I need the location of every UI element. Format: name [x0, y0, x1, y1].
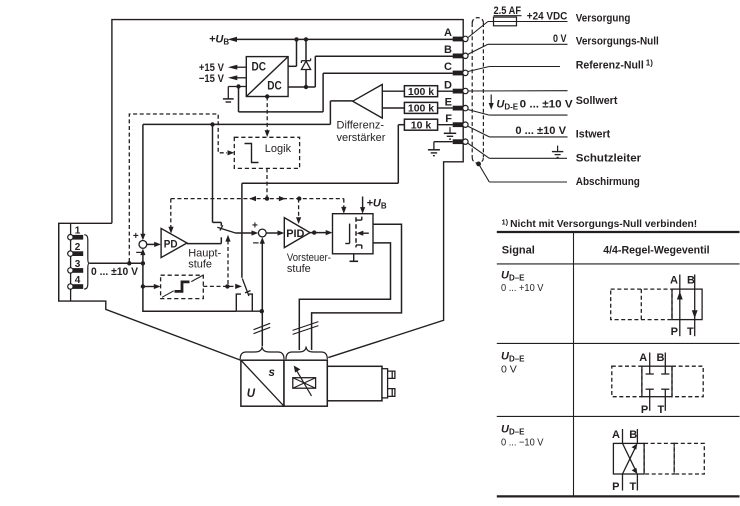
connection labels column	[576, 12, 659, 188]
pin 1	[68, 226, 84, 240]
connector X1 body	[59, 223, 71, 301]
junction node ref ground	[236, 84, 240, 88]
table header rule	[497, 263, 740, 265]
table top rule	[497, 231, 740, 233]
junction node PID output	[312, 230, 316, 234]
svg-text:Differenz-: Differenz-	[337, 119, 385, 131]
svg-text:E: E	[445, 96, 452, 108]
op-amp difference amplifier	[353, 84, 383, 118]
brace wire entry solenoid	[286, 346, 327, 359]
svg-text:Istwert: Istwert	[576, 129, 611, 141]
wire Versorgungs-Null	[468, 44, 568, 54]
svg-text:UD–E: UD–E	[501, 270, 525, 283]
svg-text:1: 1	[75, 226, 81, 237]
wire PD output to switch contact	[187, 237, 221, 243]
svg-text:stufe: stufe	[287, 263, 311, 275]
svg-text:UD-E0 ... ±10 V: UD-E0 ... ±10 V	[496, 98, 573, 111]
junction node diode/0V	[304, 85, 308, 89]
row3 valve symbol crossed position	[613, 429, 704, 491]
svg-text:B: B	[687, 274, 695, 286]
pin 3	[68, 259, 84, 273]
wire sensor lead down	[261, 311, 263, 346]
svg-text:C: C	[444, 61, 452, 73]
wire Versorgung with fuse	[468, 22, 568, 38]
svg-text:P: P	[641, 404, 648, 416]
label Differenzverstaerker	[337, 119, 386, 144]
junction node DC/DC to logic	[265, 94, 269, 98]
dashed control arrow to output stage	[341, 199, 346, 214]
resistor R1 100k	[382, 86, 453, 98]
op-amp PD main stage	[161, 228, 187, 257]
wire output stage to solenoid (inner)	[299, 243, 390, 350]
dashed command-sense line to Logik	[129, 114, 234, 262]
svg-text:+: +	[252, 221, 258, 232]
svg-text:0 ... ±10 V: 0 ... ±10 V	[515, 125, 566, 137]
−15V output arrow	[199, 73, 246, 85]
row3 label UD-E 0...-10V	[501, 424, 544, 449]
svg-text:B: B	[444, 44, 452, 56]
+UB arrow into output stage	[360, 197, 387, 214]
fuse 2.5AF	[494, 5, 522, 26]
svg-text:100 k: 100 k	[408, 86, 434, 98]
svg-text:stufe: stufe	[188, 258, 212, 270]
wire Abschirmung	[479, 164, 567, 182]
svg-text:0 V: 0 V	[553, 33, 567, 45]
brace joining pins	[84, 235, 89, 289]
row1 flow arrows	[677, 291, 698, 318]
wire into limiter	[143, 284, 161, 289]
svg-text:UD–E: UD–E	[501, 424, 525, 437]
earth symbol at Schutzleiter	[552, 146, 563, 158]
junction node diff output branch	[210, 122, 214, 126]
junction node dashed control	[225, 284, 229, 288]
junction node solenoid feed	[260, 309, 264, 313]
valve body	[327, 366, 382, 401]
dashed control arrow to PID	[296, 199, 301, 224]
svg-text:0 ... −10 V: 0 ... −10 V	[501, 437, 544, 449]
svg-text:DC: DC	[267, 81, 282, 93]
svg-text:10 k: 10 k	[411, 120, 432, 132]
terminal F	[445, 113, 468, 128]
svg-text:Logik: Logik	[265, 143, 292, 155]
wire Sollwert D	[468, 90, 567, 92]
wire Sollwert E	[468, 110, 568, 116]
svg-text:T: T	[658, 404, 665, 416]
wire istwert feedback from R3	[242, 125, 405, 278]
row2 label UD-E 0V	[501, 351, 525, 376]
svg-text:verstärker: verstärker	[337, 132, 386, 144]
junction node S1 lower	[141, 261, 145, 265]
chassis earth for PE terminal	[428, 142, 453, 156]
ground symbol below F	[444, 127, 456, 139]
row divider 1	[497, 342, 740, 344]
limiter ramp block (dashed)	[161, 275, 204, 298]
svg-text:UD–E: UD–E	[501, 351, 525, 364]
svg-text:PID: PID	[286, 228, 304, 240]
svg-text:4: 4	[75, 275, 81, 286]
junction node +UB/DCDC	[294, 37, 298, 41]
cable break on sensor lead	[254, 323, 271, 333]
svg-text:F: F	[445, 113, 452, 125]
row2 valve symbol mid position	[612, 353, 703, 411]
ground below output stage	[350, 254, 359, 261]
svg-text:+UB: +UB	[367, 198, 387, 211]
svg-text:P: P	[612, 481, 619, 493]
dc-dc converter U2	[246, 57, 288, 97]
pin 4	[68, 275, 84, 289]
wire reference-null to terminal C	[239, 73, 453, 112]
svg-text:2.5 AF: 2.5 AF	[494, 5, 522, 17]
diode V1 (suppressor)	[301, 39, 310, 87]
row1 port letters	[670, 274, 695, 338]
dashed limiter output	[203, 285, 227, 287]
svg-text:+: +	[133, 231, 139, 242]
switch S-B contacts	[236, 294, 261, 311]
svg-text:A: A	[670, 274, 678, 286]
output stage box	[333, 214, 374, 254]
svg-text:U: U	[247, 388, 256, 400]
wire diff-direct to switch contact	[213, 124, 222, 225]
svg-text:Versorgungs-Null: Versorgungs-Null	[576, 36, 659, 48]
svg-text:D: D	[444, 79, 452, 91]
junction node shield tap	[476, 162, 481, 167]
svg-text:PD: PD	[164, 238, 178, 250]
svg-text:A: A	[612, 429, 620, 441]
svg-text:3: 3	[75, 259, 81, 270]
wire command input	[89, 262, 143, 264]
junction node limiter tap	[141, 284, 145, 288]
dashed switch control arrow up	[225, 235, 230, 284]
wire Referenz-Null	[468, 67, 560, 72]
junction node +UB/diode	[304, 37, 308, 41]
svg-text:DC: DC	[252, 62, 267, 74]
wire diff-amp output to summing node S1	[143, 101, 353, 237]
arrow of MOSFET	[357, 231, 364, 236]
terminal E	[445, 96, 468, 111]
svg-text:−15 V: −15 V	[199, 73, 225, 85]
svg-text:Referenz-Null1): Referenz-Null1)	[576, 59, 653, 72]
wire Istwert	[468, 126, 568, 137]
changeover switch S-A	[217, 225, 235, 233]
cable break on solenoid pair	[293, 322, 319, 335]
cable shield (dashed)	[472, 18, 483, 164]
label Hauptstufe	[188, 247, 221, 270]
terminal A	[444, 27, 468, 41]
pin 2	[68, 242, 84, 256]
op-amp PID pilot stage	[284, 218, 310, 248]
wire output stage to solenoid (outer)	[312, 224, 402, 350]
changeover switch S-B	[242, 279, 250, 297]
svg-text:Versorgung: Versorgung	[576, 12, 631, 24]
wire +UB supply rail	[237, 39, 453, 66]
svg-text:2: 2	[75, 242, 81, 253]
svg-text:+24 VDC: +24 VDC	[527, 10, 568, 22]
label UD-E 0 ... +-10 V with arrow	[489, 95, 574, 112]
svg-text:A: A	[639, 352, 647, 364]
table column divider	[573, 232, 575, 496]
summing node S1	[133, 231, 147, 259]
wire S1 to PD	[147, 242, 161, 247]
row1 label UD-E 0...+10V	[501, 270, 544, 295]
svg-text:Signal: Signal	[502, 245, 535, 257]
wire S2 to PID	[266, 230, 284, 235]
wire 0V to terminal B	[288, 56, 453, 87]
svg-text:B: B	[629, 429, 637, 441]
dashed control bus from Logik	[171, 168, 344, 201]
dashed control arrow to PD	[168, 199, 173, 234]
analog ground at DC/DC	[223, 87, 246, 103]
svg-text:T: T	[687, 326, 694, 338]
+15V output arrow	[199, 62, 246, 74]
svg-text:A: A	[444, 27, 452, 39]
svg-text:1)Nicht mit Versorgungs-Null v: 1)Nicht mit Versorgungs-Null verbinden!	[502, 218, 698, 231]
svg-text:Schutzleiter: Schutzleiter	[576, 152, 642, 164]
enclosure outline of amplifier card	[59, 20, 464, 361]
svg-text:0 V: 0 V	[501, 364, 517, 376]
svg-text:−: −	[253, 237, 259, 249]
terminal B	[444, 44, 468, 58]
wire sollwert into S1 from below	[140, 249, 145, 264]
wire switch to S2	[236, 230, 259, 235]
valve end connector	[382, 369, 395, 398]
svg-text:Sollwert: Sollwert	[576, 95, 618, 107]
terminal D	[444, 79, 468, 93]
wire feedback into S2 from below	[260, 237, 265, 311]
wire PID to output stage	[310, 230, 333, 235]
table bottom rule	[497, 495, 740, 497]
svg-text:B: B	[657, 352, 665, 364]
wire Schutzleiter	[468, 143, 567, 158]
row2 port letters	[639, 352, 664, 416]
brace wire entry sensor	[240, 346, 284, 359]
junction node dashed sense	[127, 261, 131, 265]
summing node S2	[252, 221, 266, 250]
row3 flow arrows	[632, 443, 638, 474]
transistor Q1 MOSFET	[345, 217, 369, 249]
Logik block (dashed)	[234, 137, 299, 168]
svg-text:0 ... ±10 V: 0 ... ±10 V	[91, 266, 139, 278]
resistor R3 10k	[404, 119, 453, 131]
valve position sensor box	[241, 360, 284, 406]
terminal C	[444, 61, 468, 75]
svg-text:P: P	[671, 326, 678, 338]
label Vorsteuerstufe	[287, 252, 331, 275]
row divider 2	[497, 415, 740, 417]
terminal PE	[453, 139, 468, 144]
row3 port letters	[612, 429, 637, 493]
row1 valve symbol 4/4 valve position a	[611, 275, 702, 337]
svg-text:Abschirmung: Abschirmung	[576, 176, 640, 188]
svg-text:T: T	[630, 481, 637, 493]
svg-text:+UB: +UB	[209, 34, 229, 47]
label +UB	[209, 34, 237, 47]
svg-text:4/4-Regel-Wegeventil: 4/4-Regel-Wegeventil	[603, 245, 709, 257]
valve solenoid box	[284, 360, 327, 406]
wire command down to bottom rail	[143, 263, 236, 311]
dashed arrow to switch S-B	[230, 284, 243, 289]
resistor R2 100k	[382, 102, 453, 114]
svg-text:0 ... +10 V: 0 ... +10 V	[501, 282, 544, 294]
svg-text:s: s	[269, 367, 275, 379]
svg-text:100 k: 100 k	[408, 103, 434, 115]
dashed control line DC/DC to Logik	[265, 97, 270, 138]
